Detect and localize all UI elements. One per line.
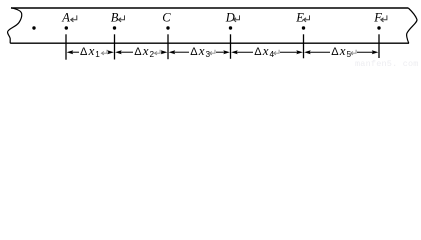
tick D (230, 34, 232, 59)
svg-text:manfen5. com: manfen5. com (355, 59, 419, 69)
svg-text:x: x (262, 43, 269, 58)
tape top edge (11, 7, 408, 9)
return mark after F (381, 15, 387, 21)
svg-text:x: x (142, 43, 149, 58)
interval 5 label Δx5 (331, 43, 351, 59)
tick A (65, 34, 67, 59)
svg-text:Δ: Δ (254, 46, 262, 58)
interval 4 right arrow (280, 50, 303, 54)
interval 2 label Δx2 (134, 43, 154, 59)
svg-text:4: 4 (270, 50, 275, 59)
tick E (303, 34, 305, 58)
svg-text:Δ: Δ (331, 46, 339, 58)
return mark after Δx2 (155, 50, 161, 55)
interval 5 left arrow (304, 50, 330, 54)
interval 3 left arrow (169, 50, 189, 54)
svg-text:Δ: Δ (80, 46, 88, 58)
interval 2 right arrow (161, 50, 168, 54)
tape bottom edge (10, 42, 409, 44)
interval 2 left arrow (115, 50, 133, 54)
svg-text:D: D (225, 11, 235, 25)
svg-text:E: E (295, 11, 304, 25)
return mark after D (233, 15, 239, 21)
dot D (229, 26, 232, 29)
svg-text:1: 1 (95, 50, 100, 59)
svg-text:2: 2 (150, 50, 155, 59)
return mark after Δx1 (101, 50, 107, 55)
dot E (302, 26, 305, 29)
svg-text:F: F (373, 11, 382, 25)
svg-text:x: x (198, 43, 205, 58)
interval 4 left arrow (231, 50, 253, 54)
return mark after Δx3 (209, 50, 215, 55)
interval 1 left arrow (67, 50, 79, 54)
return mark after Δx4 (274, 50, 280, 55)
svg-text:x: x (88, 43, 95, 58)
svg-text:3: 3 (206, 50, 211, 59)
svg-text:Δ: Δ (190, 46, 198, 58)
dot A (65, 26, 68, 29)
svg-text:C: C (162, 11, 171, 25)
tape right torn edge (407, 8, 417, 43)
interval 3 label Δx3 (190, 43, 210, 59)
return mark after Δx5 (351, 50, 357, 55)
svg-text:x: x (339, 43, 346, 58)
return mark after E (303, 15, 309, 21)
interval 5 right arrow (357, 50, 378, 54)
tick B (114, 34, 116, 59)
tick C (167, 34, 169, 59)
return mark after A (71, 15, 77, 21)
interval 1 right arrow (107, 50, 114, 54)
svg-text:B: B (111, 11, 119, 25)
dot B (113, 26, 116, 29)
interval 3 right arrow (216, 50, 230, 54)
dot F (377, 26, 380, 29)
svg-text:A: A (61, 11, 70, 25)
return mark after B (118, 15, 124, 21)
tape left torn edge (8, 8, 22, 43)
svg-text:Δ: Δ (134, 46, 142, 58)
interval 1 label Δx1 (80, 43, 100, 59)
svg-text:5: 5 (347, 50, 352, 59)
first dot (unlabeled) (32, 26, 35, 29)
dot C (166, 26, 169, 29)
interval 4 label Δx4 (254, 43, 274, 59)
tick F (378, 34, 380, 58)
